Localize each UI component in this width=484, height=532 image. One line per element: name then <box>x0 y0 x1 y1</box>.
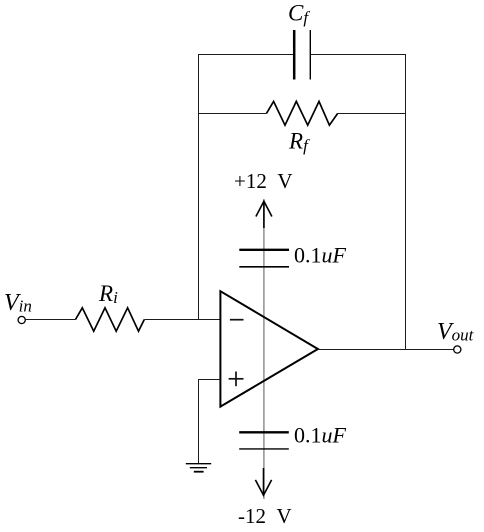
wire Ri to op-amp inverting input <box>144 319 220 321</box>
svg-text:+12 V: +12 V <box>234 169 293 193</box>
wire left feedback vertical <box>198 54 200 320</box>
svg-text:0.1uF: 0.1uF <box>294 423 347 448</box>
svg-text:-12 V: -12 V <box>238 504 292 528</box>
supply arrow +12V <box>256 201 272 228</box>
wire Rf left lead <box>199 113 267 115</box>
wire top feedback left segment (Cf left lead) <box>199 54 294 56</box>
wire non-inverting input down to ground <box>198 379 200 464</box>
op-amp plus sign <box>229 372 244 387</box>
op-amp U1 <box>220 291 318 406</box>
terminal Vin (open circle) <box>18 316 25 323</box>
capacitor 0.1uF (positive rail bypass) <box>239 250 289 267</box>
wire non-inverting input horizontal <box>199 379 221 381</box>
op-amp minus sign <box>230 319 244 321</box>
svg-text:0.1uF: 0.1uF <box>294 242 347 267</box>
supply rail wire (gray vertical through op-amp) <box>263 199 265 499</box>
wire op-amp output to Vout <box>318 349 454 351</box>
capacitor 0.1uF (negative rail bypass) <box>239 432 289 449</box>
resistor Ri <box>76 308 145 331</box>
supply arrow -12V <box>255 468 271 495</box>
wire right feedback vertical <box>405 54 407 350</box>
wire Rf right lead <box>338 113 406 115</box>
resistor Rf <box>266 101 337 125</box>
ground <box>186 464 211 472</box>
wire top feedback right segment (Cf right lead) <box>310 54 405 56</box>
wire Vin to Ri <box>25 319 75 321</box>
terminal Vout (open circle) <box>454 346 461 353</box>
capacitor Cf <box>294 30 310 80</box>
